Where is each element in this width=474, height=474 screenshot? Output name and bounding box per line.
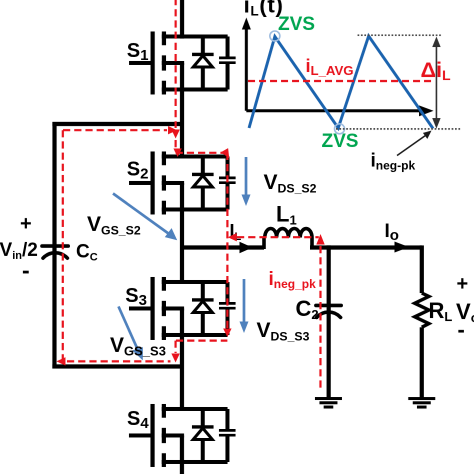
wire: red dashed down through S2/S3 parallel caps <box>226 153 228 329</box>
svg-text:ineg-pk: ineg-pk <box>371 151 416 173</box>
svg-text:Io: Io <box>384 221 398 244</box>
red arrowhead down-right at S2 drain/cap corner <box>221 148 229 158</box>
inductor current waveform <box>249 36 433 129</box>
svg-text:VDS_S2: VDS_S2 <box>264 171 317 195</box>
transistor S1 (with body diode and parallel capacitor) <box>129 31 236 94</box>
transistor S4 (with body diode and parallel capacitor) <box>129 404 236 467</box>
red dashed average-current line <box>248 80 433 82</box>
red arrowhead left at i_neg_pk elbow <box>228 233 237 241</box>
red arrowhead down onto node B <box>171 353 179 362</box>
pointer arrow to negative peak <box>397 134 428 156</box>
capacitor C2 (output capacitor) <box>316 305 341 317</box>
blue arrow VGS_S2 <box>113 193 171 235</box>
ZVS circle marker at first peak <box>270 31 280 41</box>
node A wire: S1/S2 junction to Cc top <box>52 122 182 126</box>
inset x-axis <box>246 109 421 112</box>
red arrowhead down at node A <box>171 129 179 138</box>
svg-text:S4: S4 <box>127 408 149 432</box>
dotted valley reference line <box>336 128 461 130</box>
wire: red dashed short segment node A to S2 drain corner <box>175 140 177 152</box>
svg-text:S2: S2 <box>127 158 149 182</box>
wire: RL bottom lead <box>420 327 424 398</box>
svg-text:S1: S1 <box>127 40 149 64</box>
svg-text:-: - <box>22 257 30 283</box>
svg-text:+: + <box>20 213 32 235</box>
blue arrow VDS_S3 <box>243 279 246 323</box>
svg-text:CC: CC <box>76 241 98 263</box>
transistor S3 (with body diode and parallel capacitor) <box>129 277 236 340</box>
svg-text:L1: L1 <box>276 202 297 228</box>
wire: red dashed from Cc top to node A <box>63 129 167 131</box>
resistor RL <box>415 293 429 327</box>
wire: bus S2 body/source to S3 drain (through switch node) <box>180 183 184 284</box>
wire: red dashed along node B wire to Cc bottom <box>67 360 171 362</box>
svg-text:VGS_S3: VGS_S3 <box>110 334 166 358</box>
wire: red dashed below S3 bottom rail <box>176 339 227 341</box>
svg-text:iL_AVG: iL_AVG <box>306 56 354 78</box>
wire: bus S4 body/source to bottom edge <box>180 435 184 474</box>
ZVS circle marker at first valley <box>335 124 345 134</box>
node B wire: S3/S4 junction to Cc bottom <box>52 364 182 368</box>
svg-text:ZVS: ZVS <box>278 14 315 35</box>
svg-text:ZVS: ZVS <box>322 131 359 152</box>
red arrowhead up at L1 right node <box>316 234 324 245</box>
wire: bus S3 body/source to S4 drain (through node B) <box>180 308 184 411</box>
dotted peak reference line <box>358 34 442 36</box>
wire: red dashed i_neg_pk vertical along C2 <box>319 246 321 390</box>
svg-text:RL: RL <box>428 298 452 324</box>
svg-text:C2: C2 <box>295 296 318 322</box>
wire: red dashed along S2 drain rail <box>176 152 228 154</box>
current arrow IL on switch-node wire <box>239 242 252 254</box>
svg-text:+: + <box>456 273 468 295</box>
wire: RL top lead <box>420 245 424 293</box>
wire: red dashed short drop to node B <box>174 341 176 353</box>
wire: C2 branch upper lead <box>327 245 331 398</box>
current arrow Io on output wire <box>394 242 409 253</box>
transistor S2 (with body diode and parallel capacitor) <box>129 151 236 214</box>
svg-text:VDS_S3: VDS_S3 <box>256 319 309 343</box>
ground (below C2) <box>315 399 342 408</box>
ground (below RL) <box>408 399 435 408</box>
wire: Cc branch lead <box>52 122 56 368</box>
red arrowhead down at S2 drain corner <box>173 148 181 157</box>
inset y-axis <box>245 26 248 111</box>
blue arrow VDS_S2 <box>245 157 248 196</box>
wire: red dashed along Cc branch <box>62 130 64 361</box>
svg-text:ΔiL: ΔiL <box>421 58 451 83</box>
svg-text:Vin/2: Vin/2 <box>0 240 38 262</box>
blue arrow VGS_S3 <box>118 306 137 349</box>
svg-text:S3: S3 <box>125 285 147 309</box>
red arrowhead right into node A <box>168 126 177 134</box>
svg-text:-: - <box>457 317 464 342</box>
wire: red dashed vertical from top edge into node A <box>175 0 177 128</box>
delta-iL double arrow <box>432 37 440 129</box>
wire: input bus top (to S1 drain) <box>180 0 184 39</box>
capacitor Cc (flying capacitor) <box>42 246 68 258</box>
wire: red dashed i_neg_pk horizontal under L1 <box>237 236 319 238</box>
red arrowhead left into Cc bottom <box>56 357 65 365</box>
red arrowhead down at S3 cap bottom <box>223 328 231 337</box>
svg-text:VGS_S2: VGS_S2 <box>87 213 141 237</box>
svg-text:ineg_pk: ineg_pk <box>268 269 316 291</box>
inductor L1 <box>264 229 312 250</box>
wire: bus S1 body/source to S2 drain (through node A) <box>180 63 184 158</box>
wire: switch node to inductor L1 <box>182 245 264 249</box>
wire: L1 to output node and RL top <box>310 245 422 249</box>
